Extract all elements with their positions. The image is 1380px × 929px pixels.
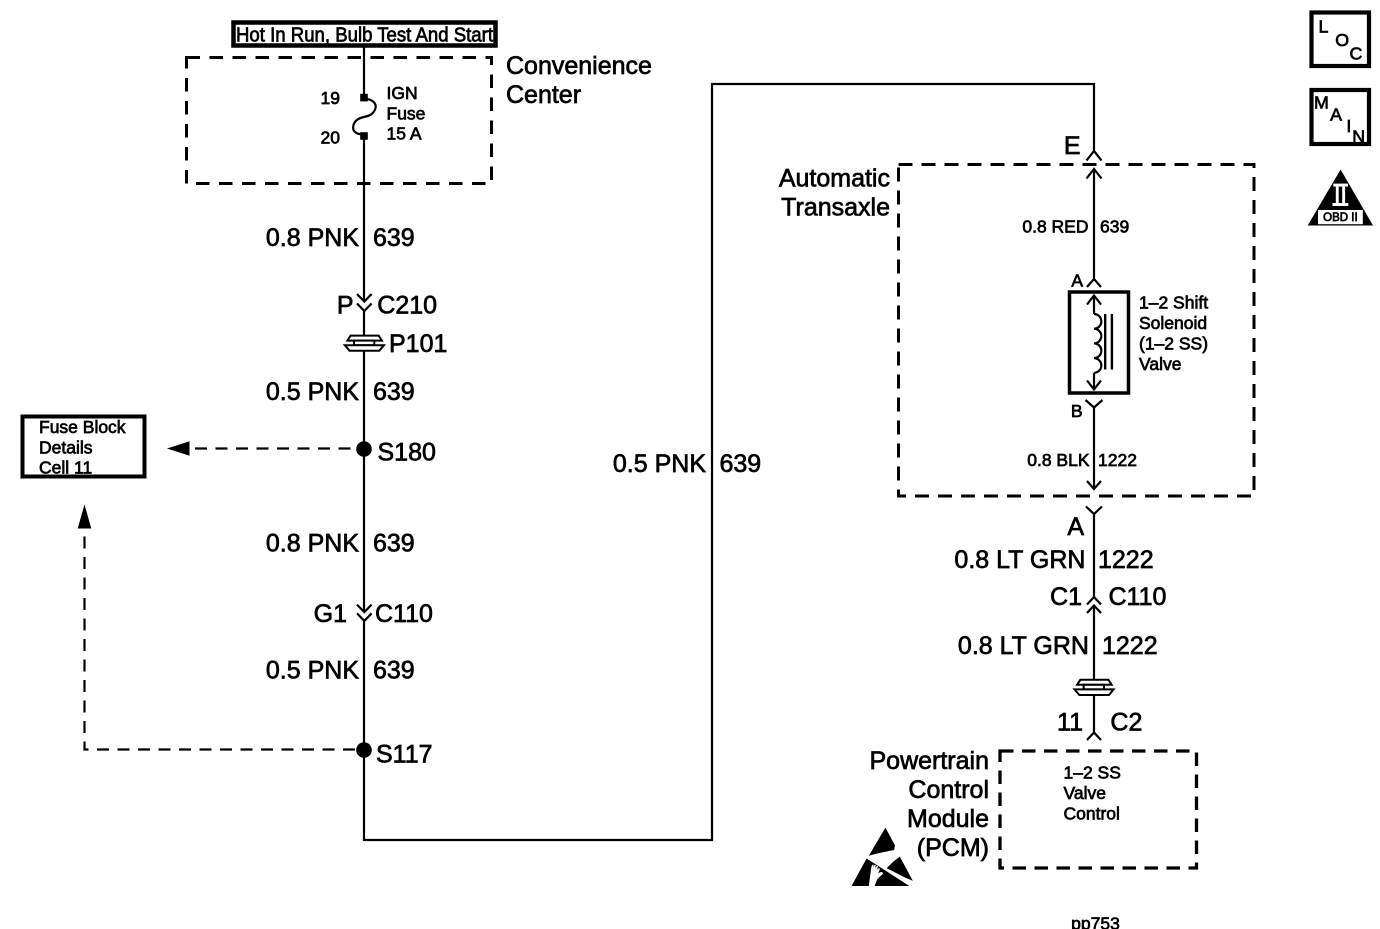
svg-text:639: 639 xyxy=(373,530,415,558)
svg-text:0.5 PNK: 0.5 PNK xyxy=(266,378,359,406)
wire inside transaxle from E to solenoid pin A xyxy=(1093,169,1095,279)
dashed reference arrow from S117 up to Fuse Block Details xyxy=(78,505,355,750)
wire from P101 through splice S180 to connector C110 xyxy=(363,351,365,612)
svg-text:0.8 RED: 0.8 RED xyxy=(1022,217,1088,237)
svg-text:Control: Control xyxy=(908,776,989,804)
svg-text:639: 639 xyxy=(1100,217,1129,237)
svg-text:Details: Details xyxy=(39,437,93,457)
svg-text:Powertrain: Powertrain xyxy=(870,747,990,775)
1-2 Shift Solenoid valve U1 xyxy=(1070,292,1129,393)
svg-text:C: C xyxy=(1350,44,1363,64)
MAIN legend box xyxy=(1312,90,1370,147)
Convenience Center dashed box xyxy=(187,58,492,184)
connector C110 pin G1 xyxy=(357,605,372,621)
svg-text:OBD II: OBD II xyxy=(1323,212,1358,224)
svg-text:C110: C110 xyxy=(375,600,433,628)
svg-text:639: 639 xyxy=(373,657,415,685)
svg-text:A: A xyxy=(1330,104,1342,124)
connector half at pin A below case xyxy=(1086,507,1102,515)
dashed reference arrow from S180 to Fuse Block Details xyxy=(167,441,355,455)
svg-text:S180: S180 xyxy=(378,439,436,467)
wire label 0.5 PNK 639 xyxy=(266,657,415,685)
feed label box "Hot In Run, Bulb Test And Start" xyxy=(234,23,496,47)
svg-text:Module: Module xyxy=(907,805,989,833)
svg-text:P: P xyxy=(337,292,354,320)
svg-text:E: E xyxy=(1064,132,1081,160)
Automatic Transaxle dashed box xyxy=(899,165,1255,497)
fuse IGN Fuse 15 A xyxy=(353,94,376,140)
wire label 0.5 PNK 639 (run to transaxle) xyxy=(613,450,761,478)
svg-text:15 A: 15 A xyxy=(387,124,422,144)
svg-text:L: L xyxy=(1319,16,1329,36)
svg-text:C110: C110 xyxy=(1109,583,1167,611)
svg-text:0.8 PNK: 0.8 PNK xyxy=(266,530,359,558)
svg-text:Fuse: Fuse xyxy=(387,103,426,123)
svg-text:0.8 PNK: 0.8 PNK xyxy=(266,224,359,252)
svg-text:Cell 11: Cell 11 xyxy=(39,458,92,478)
pass-through grommet xyxy=(1075,680,1114,695)
wire from transaxle exit to connector C110 C1 xyxy=(1093,514,1095,597)
svg-text:IGN: IGN xyxy=(387,83,418,103)
wire from C110 through splice S117 then right and up to transaxle pin E xyxy=(364,84,1094,840)
svg-text:O: O xyxy=(1335,30,1349,50)
wire label 0.5 PNK 639 xyxy=(266,378,415,406)
svg-text:0.5 PNK: 0.5 PNK xyxy=(613,450,706,478)
svg-text:Transaxle: Transaxle xyxy=(781,194,890,222)
wire label 0.8 LT GRN 1222 xyxy=(958,632,1158,660)
wire label 0.8 PNK 639 xyxy=(266,224,415,252)
Fuse Block Details Cell 11 box xyxy=(23,417,145,478)
wire label 0.8 LT GRN 1222 xyxy=(954,546,1153,574)
svg-text:I: I xyxy=(1346,116,1351,136)
wire from grommet to PCM connector C2 pin 11 xyxy=(1093,695,1095,733)
svg-text:P101: P101 xyxy=(389,330,447,358)
pass-through grommet P101 xyxy=(345,336,384,351)
svg-text:639: 639 xyxy=(373,224,415,252)
wire from solenoid pin B to transaxle case exit xyxy=(1093,408,1095,490)
svg-text:0.8 LT GRN: 0.8 LT GRN xyxy=(954,546,1085,574)
svg-text:M: M xyxy=(1314,93,1329,113)
svg-text:pp753: pp753 xyxy=(1071,914,1120,929)
wire from fuse to connector C210 xyxy=(363,138,365,301)
Powertrain Control Module dashed box xyxy=(1000,751,1197,868)
svg-text:C210: C210 xyxy=(377,292,437,320)
svg-text:Valve: Valve xyxy=(1139,354,1181,374)
svg-text:1222: 1222 xyxy=(1098,450,1137,470)
svg-text:B: B xyxy=(1071,401,1083,421)
label 1-2 SS Valve Control xyxy=(1064,763,1121,824)
svg-text:C1: C1 xyxy=(1050,583,1082,611)
wire label 0.8 RED 639 xyxy=(1022,217,1129,237)
splice S180 xyxy=(356,441,372,457)
svg-text:19: 19 xyxy=(321,88,340,108)
svg-text:Valve: Valve xyxy=(1064,783,1106,803)
svg-text:(PCM): (PCM) xyxy=(917,834,989,862)
wire from C210 to pass-through P101 xyxy=(363,311,365,336)
connector half above case exit xyxy=(1087,481,1101,489)
svg-text:C2: C2 xyxy=(1110,709,1142,737)
splice S117 xyxy=(356,742,372,758)
label Convenience Center xyxy=(506,52,652,109)
svg-text:639: 639 xyxy=(720,450,762,478)
connector half at E below case xyxy=(1087,169,1102,179)
svg-text:1222: 1222 xyxy=(1098,546,1154,574)
svg-text:0.8 LT GRN: 0.8 LT GRN xyxy=(958,632,1089,660)
wire label 0.8 PNK 639 xyxy=(266,530,415,558)
svg-text:639: 639 xyxy=(373,378,415,406)
svg-text:Hot In Run, Bulb Test And Star: Hot In Run, Bulb Test And Start xyxy=(236,25,493,47)
ESD sensitive device symbol xyxy=(852,828,913,886)
label 1-2 Shift Solenoid (1-2 SS) Valve xyxy=(1139,293,1208,375)
label IGN Fuse 15 A xyxy=(387,83,426,144)
svg-text:Convenience: Convenience xyxy=(506,52,652,80)
svg-text:1–2 SS: 1–2 SS xyxy=(1064,763,1121,783)
LOC legend box xyxy=(1312,13,1370,67)
svg-text:20: 20 xyxy=(321,128,341,148)
svg-text:Fuse Block: Fuse Block xyxy=(39,417,126,437)
connector half at E above case xyxy=(1087,151,1102,161)
svg-text:1–2 Shift: 1–2 Shift xyxy=(1139,293,1208,313)
svg-text:A: A xyxy=(1071,271,1083,291)
svg-text:S117: S117 xyxy=(376,741,433,769)
connector C210 pin P xyxy=(357,294,372,311)
svg-text:11: 11 xyxy=(1057,709,1083,737)
svg-text:N: N xyxy=(1352,127,1365,147)
OBD II legend symbol xyxy=(1308,170,1373,226)
wire from C110 to pass-through grommet xyxy=(1093,606,1095,681)
wire label 0.8 BLK 1222 xyxy=(1027,450,1137,470)
connector C110 pin C1 xyxy=(1087,597,1101,613)
wire from fuse feed label box down to fuse xyxy=(363,48,365,96)
svg-text:A: A xyxy=(1067,513,1084,541)
label Automatic Transaxle xyxy=(779,165,890,222)
svg-text:0.5 PNK: 0.5 PNK xyxy=(266,657,359,685)
svg-text:(1–2 SS): (1–2 SS) xyxy=(1139,334,1208,354)
svg-text:Center: Center xyxy=(506,81,581,109)
svg-text:Automatic: Automatic xyxy=(779,165,890,193)
svg-text:1222: 1222 xyxy=(1102,632,1158,660)
svg-text:0.8 BLK: 0.8 BLK xyxy=(1027,450,1090,470)
svg-text:G1: G1 xyxy=(314,600,347,628)
svg-text:Solenoid: Solenoid xyxy=(1139,313,1207,333)
svg-text:Control: Control xyxy=(1064,803,1120,823)
label Powertrain Control Module (PCM) xyxy=(870,747,990,862)
